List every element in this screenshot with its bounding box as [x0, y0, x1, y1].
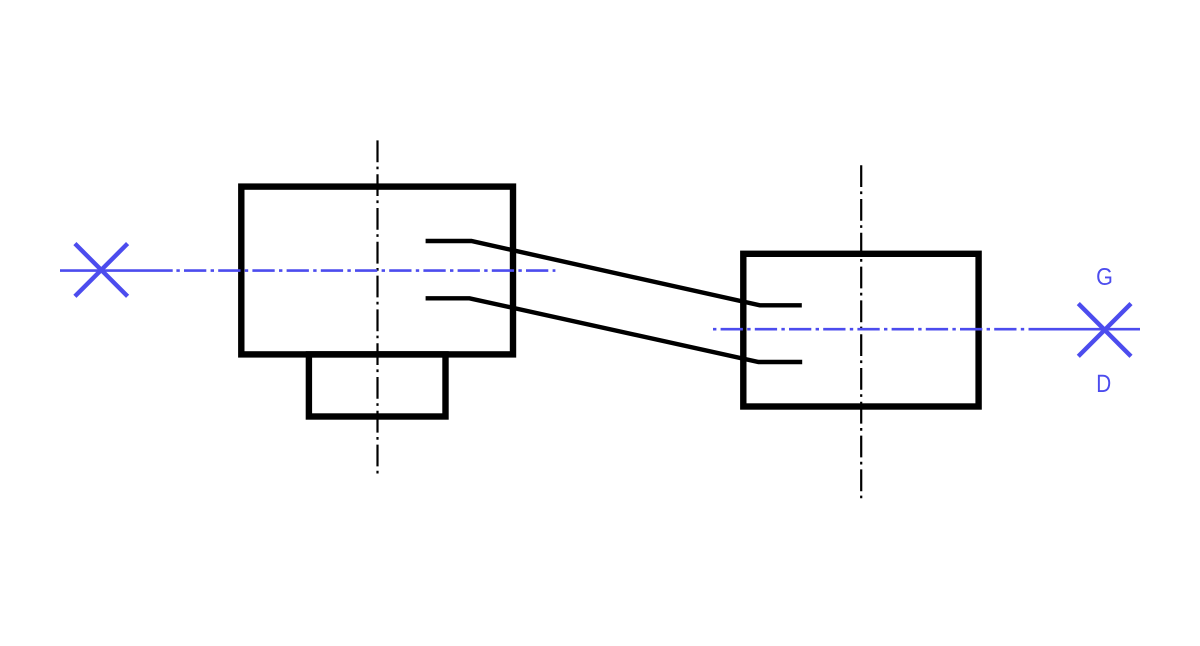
lower projection leader line: [426, 298, 803, 362]
right view vertical centerline (dash-dot): [860, 165, 862, 498]
left blue axis: dash-dot continuation: [176, 269, 555, 272]
right view: body outline: [743, 254, 978, 407]
left X mark diagonal (TL-BR): [75, 244, 128, 297]
label D: [1098, 375, 1110, 392]
left view: bottom boss outline: [309, 354, 446, 416]
right blue axis: dash-dot segment: [713, 328, 1029, 331]
right X mark diagonal (TL-BR): [1078, 304, 1131, 357]
left X mark diagonal (BL-TR): [75, 244, 128, 297]
upper projection leader line: [426, 241, 802, 305]
left view: main body outline: [241, 187, 513, 355]
left blue axis: solid segment through X mark: [60, 269, 173, 272]
left view vertical centerline (dash-dot): [376, 140, 378, 474]
right blue axis: solid segment through X mark: [1029, 328, 1140, 331]
right X mark diagonal (BL-TR): [1078, 304, 1131, 357]
label G: [1097, 268, 1111, 285]
